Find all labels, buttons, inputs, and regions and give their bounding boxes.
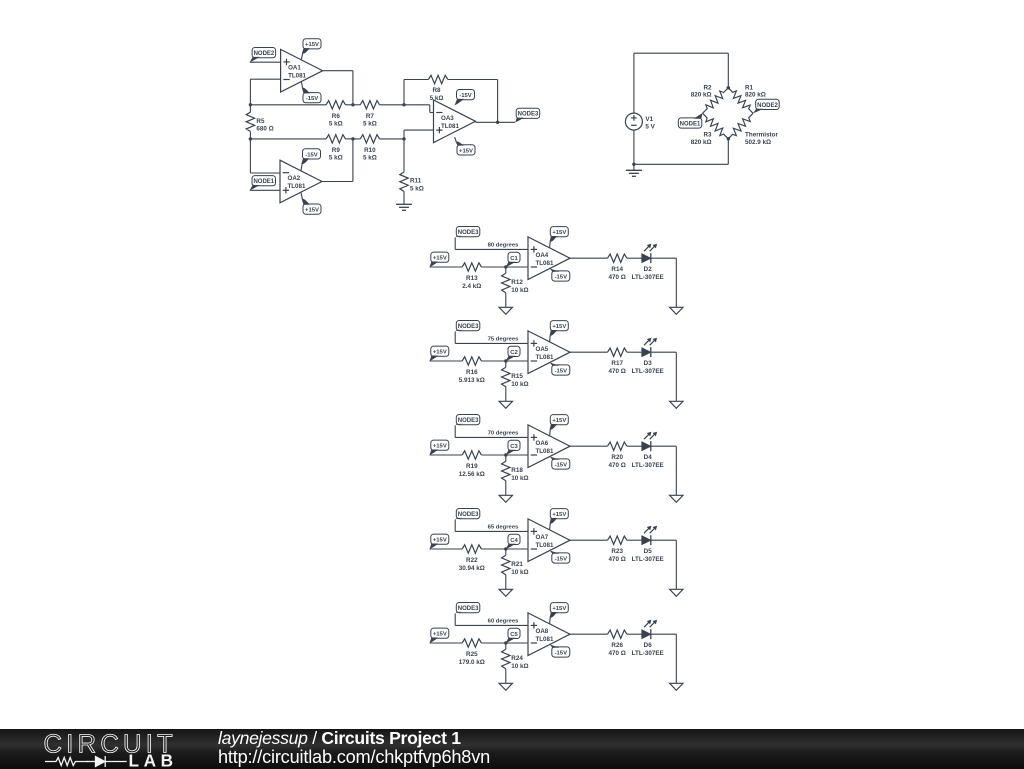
node flag NODE3 input of OA5 — [455, 321, 480, 332]
footer bar — [0, 729, 1024, 769]
wire OA3 output — [476, 121, 516, 123]
node flag NODE1 on bridge — [678, 113, 702, 128]
svg-text:R17: R17 — [611, 360, 623, 367]
wire R14 to LED D2 — [627, 257, 642, 259]
resistor R24 — [502, 649, 529, 670]
svg-text:TL081: TL081 — [536, 448, 554, 455]
svg-text:LTL-307EE: LTL-307EE — [632, 650, 664, 657]
resistor R6 — [326, 101, 345, 128]
wire into OA8 + input — [455, 624, 528, 626]
svg-text:12.56 kΩ: 12.56 kΩ — [459, 471, 485, 478]
ground right of D6 — [670, 683, 683, 690]
svg-text:D4: D4 — [644, 454, 653, 461]
svg-text:TL081: TL081 — [288, 72, 306, 79]
svg-text:-15V: -15V — [555, 556, 568, 562]
power flag +15V at R19 — [430, 440, 449, 455]
wire into OA6 + input — [455, 436, 528, 438]
op-amp OA5 — [528, 331, 570, 374]
svg-text:NODE3: NODE3 — [518, 112, 539, 118]
label 60 degrees — [488, 618, 520, 624]
svg-text:-15V: -15V — [459, 93, 472, 99]
svg-text:R5: R5 — [256, 118, 265, 125]
svg-text:OA7: OA7 — [536, 534, 549, 541]
wire R19 to node C3 — [482, 454, 506, 456]
wire into OA3 + input — [404, 129, 434, 131]
svg-text:470 Ω: 470 Ω — [609, 462, 626, 469]
power flag +15V at R16 — [430, 346, 449, 361]
LED D3 — [632, 338, 664, 375]
wire R17 to LED D3 — [627, 351, 642, 353]
power flag -15V of OA1 — [301, 82, 321, 103]
wire top bus segment 3 — [380, 104, 430, 106]
footer url — [218, 748, 490, 766]
power flag -15V of OA7 — [550, 550, 570, 563]
wire +15V to R13 — [430, 266, 463, 268]
wire R15 to ground — [505, 387, 507, 402]
wire NODE3 drop for OA5 — [454, 332, 456, 344]
junction OA2 output on bottom bus — [351, 137, 354, 140]
ground under R11 — [396, 204, 412, 210]
svg-text:+15V: +15V — [433, 256, 447, 262]
svg-text:R23: R23 — [611, 548, 623, 555]
svg-text:V1: V1 — [645, 116, 653, 123]
wire LED D5 to corner — [651, 539, 676, 541]
svg-text:C2: C2 — [510, 350, 518, 356]
wire into OA5 + input — [455, 342, 528, 344]
LED D2 — [632, 244, 664, 281]
svg-text:5 V: 5 V — [645, 124, 655, 131]
wire OA1 - input — [250, 78, 280, 80]
label R3 — [691, 132, 712, 146]
svg-text:R18: R18 — [511, 467, 523, 474]
wire R18 to ground — [505, 481, 507, 496]
wire into OA4 + input — [455, 248, 528, 250]
wire +15V to R22 — [430, 548, 463, 550]
wire top bus segment 1 — [250, 104, 326, 106]
wire OA1 output down to top bus — [352, 71, 354, 105]
svg-text:OA8: OA8 — [536, 628, 549, 635]
wire node C4 to OA7 - input — [506, 548, 528, 550]
wire R25 to node C5 — [482, 642, 506, 644]
svg-text:R8: R8 — [432, 87, 441, 94]
wire R24 to ground — [505, 669, 507, 684]
wire node C4 down to R21 — [505, 549, 507, 555]
junction at R5 top — [249, 103, 252, 106]
svg-text:NODE3: NODE3 — [458, 606, 479, 612]
op-amp OA6 — [528, 425, 570, 468]
wire R26 to LED D6 — [627, 633, 642, 635]
svg-text:C5: C5 — [510, 632, 518, 638]
wire OA1 output — [323, 70, 353, 72]
svg-text:820 kΩ: 820 kΩ — [691, 92, 712, 99]
node flag C3 — [506, 440, 520, 455]
svg-text:OA6: OA6 — [536, 440, 549, 447]
wire down to ground right of D5 — [675, 540, 677, 589]
node flag NODE3 input of OA6 — [455, 415, 480, 426]
node flag NODE1 at OA2 input — [250, 176, 276, 191]
resistor R8 — [428, 75, 447, 102]
svg-text:NODE3: NODE3 — [458, 418, 479, 424]
op-amp OA7 — [528, 519, 570, 562]
wire LED D2 to corner — [651, 257, 676, 259]
wire +15V to R16 — [430, 360, 463, 362]
svg-text:5 kΩ: 5 kΩ — [430, 95, 444, 102]
svg-text:+15V: +15V — [305, 208, 319, 214]
wire bottom bus segment 1 — [250, 138, 326, 140]
wire top bus to R5 — [249, 105, 251, 112]
LED D4 — [632, 432, 664, 469]
wire +15V to R25 — [430, 642, 463, 644]
svg-text:TL081: TL081 — [536, 354, 554, 361]
ground under R18 — [499, 495, 512, 502]
label 70 degrees — [488, 430, 520, 436]
node flag NODE3 input of OA7 — [455, 509, 480, 520]
ground right of D2 — [670, 307, 683, 314]
svg-text:TL081: TL081 — [536, 542, 554, 549]
wire node C5 to OA8 - input — [506, 642, 528, 644]
label Thermistor — [745, 132, 778, 146]
svg-text:-15V: -15V — [555, 368, 568, 374]
voltage source V1 — [625, 113, 655, 131]
wire OA5 output to R17 — [570, 351, 608, 353]
wire NODE3 drop for OA8 — [454, 614, 456, 626]
resistor R18 — [502, 461, 529, 482]
resistor R10 — [360, 135, 379, 162]
resistor R1 (bridge top-right arm) — [728, 88, 753, 114]
svg-text:470 Ω: 470 Ω — [609, 650, 626, 657]
resistor R15 — [502, 367, 529, 388]
wire OA8 output to R26 — [570, 633, 608, 635]
label 65 degrees — [488, 524, 520, 530]
svg-text:+15V: +15V — [305, 42, 319, 48]
svg-text:65 degrees: 65 degrees — [488, 524, 520, 530]
svg-text:10 kΩ: 10 kΩ — [511, 475, 528, 482]
LED D5 — [632, 526, 664, 563]
label 80 degrees — [488, 242, 520, 248]
svg-text:R10: R10 — [364, 147, 376, 154]
resistor R2 (bridge top-left arm) — [703, 88, 729, 114]
power flag +15V of OA2 — [301, 192, 321, 214]
wire OA6 output to R20 — [570, 445, 608, 447]
svg-text:-15V: -15V — [555, 462, 568, 468]
resistor R16 — [459, 357, 485, 384]
svg-text:5 kΩ: 5 kΩ — [329, 155, 343, 162]
svg-text:+15V: +15V — [552, 418, 566, 424]
svg-text:+15V: +15V — [552, 230, 566, 236]
svg-text:NODE3: NODE3 — [458, 230, 479, 236]
wire R23 to LED D5 — [627, 539, 642, 541]
svg-text:R3: R3 — [703, 132, 712, 139]
svg-text:OA5: OA5 — [536, 346, 549, 353]
svg-text:R21: R21 — [511, 561, 523, 568]
svg-text:5 kΩ: 5 kΩ — [410, 186, 424, 193]
wire +15V to R19 — [430, 454, 463, 456]
wire R11 to ground — [403, 191, 405, 204]
op-amp OA4 — [528, 237, 570, 280]
ground under R12 — [499, 307, 512, 314]
svg-text:R6: R6 — [332, 113, 341, 120]
wire bottom bus segment 3 — [380, 138, 404, 140]
junction feedback on OA3 output — [496, 121, 499, 124]
power flag -15V of OA6 — [550, 456, 570, 469]
svg-text:5 kΩ: 5 kΩ — [329, 121, 343, 128]
svg-text:+15V: +15V — [459, 148, 473, 154]
power flag -15V of OA8 — [550, 644, 570, 657]
power flag +15V of OA4 — [550, 227, 569, 248]
junction node C1 — [504, 265, 507, 268]
power flag -15V of OA4 — [550, 268, 570, 281]
resistor R20 — [608, 442, 627, 469]
svg-text:10 kΩ: 10 kΩ — [511, 287, 528, 294]
resistor R3 (bridge bottom-left arm) — [703, 113, 729, 139]
wire right riser top — [727, 53, 729, 88]
wire V1 to bottom — [633, 130, 635, 164]
node flag C4 — [506, 534, 520, 549]
ground under R15 — [499, 401, 512, 408]
wire R13 to node C1 — [482, 266, 506, 268]
svg-text:470 Ω: 470 Ω — [609, 368, 626, 375]
svg-text:5 kΩ: 5 kΩ — [363, 155, 377, 162]
wire into OA7 + input — [455, 530, 528, 532]
power flag +15V of OA7 — [550, 509, 569, 530]
svg-text:-15V: -15V — [306, 96, 319, 102]
resistor R19 — [459, 451, 485, 478]
svg-text:OA1: OA1 — [288, 64, 301, 71]
resistor R25 — [459, 639, 485, 666]
resistor R7 — [360, 101, 379, 128]
node flag NODE2 at OA1 input — [250, 48, 276, 63]
wire R8 to feedback right — [448, 79, 498, 81]
wire top bus segment 2 — [345, 104, 360, 106]
svg-text:R13: R13 — [466, 275, 478, 282]
label 75 degrees — [488, 336, 520, 342]
svg-text:+15V: +15V — [433, 444, 447, 450]
power flag -15V of OA3 — [455, 90, 475, 106]
svg-text:NODE3: NODE3 — [458, 512, 479, 518]
svg-text:NODE2: NODE2 — [254, 51, 275, 57]
svg-text:+15V: +15V — [433, 632, 447, 638]
CircuitLab logo — [44, 730, 178, 769]
svg-text:R11: R11 — [410, 178, 422, 185]
svg-text:R2: R2 — [703, 85, 712, 92]
ground under V1 — [626, 170, 642, 176]
svg-text:OA4: OA4 — [536, 252, 549, 259]
resistor R26 — [608, 630, 627, 657]
svg-text:+15V: +15V — [552, 512, 566, 518]
svg-text:LTL-307EE: LTL-307EE — [632, 368, 664, 375]
wire up to OA3 + input — [403, 130, 405, 139]
resistor R5 — [246, 112, 274, 133]
resistor R17 — [608, 348, 627, 375]
wire V1 to top — [633, 53, 635, 113]
svg-text:R16: R16 — [466, 369, 478, 376]
svg-text:R22: R22 — [466, 557, 478, 564]
wire node C2 down to R15 — [505, 361, 507, 367]
wire LED D3 to corner — [651, 351, 676, 353]
thermistor (bridge bottom-right arm) — [728, 113, 753, 139]
svg-text:R19: R19 — [466, 463, 478, 470]
svg-text:C3: C3 — [510, 444, 518, 450]
svg-text:820 kΩ: 820 kΩ — [745, 92, 766, 99]
wire LED D6 to corner — [651, 633, 676, 635]
wire bridge top — [634, 52, 728, 54]
svg-text:C4: C4 — [510, 538, 518, 544]
power flag +15V of OA6 — [550, 415, 569, 436]
node flag NODE3 input of OA8 — [455, 603, 480, 614]
wire ground stub — [633, 164, 635, 170]
svg-text:+15V: +15V — [433, 538, 447, 544]
wire NODE2 to OA1 + input — [250, 61, 281, 63]
svg-text:LTL-307EE: LTL-307EE — [632, 556, 664, 563]
svg-text:R25: R25 — [466, 651, 478, 658]
svg-text:R1: R1 — [745, 85, 754, 92]
power flag +15V of OA5 — [550, 321, 569, 342]
svg-text:R9: R9 — [332, 147, 341, 154]
wire NODE1 to OA2 + input — [250, 189, 280, 191]
power flag +15V of OA3 — [455, 137, 475, 155]
footer project title — [218, 730, 461, 748]
svg-text:R15: R15 — [511, 373, 523, 380]
svg-text:680 Ω: 680 Ω — [256, 126, 273, 133]
svg-text:30.94 kΩ: 30.94 kΩ — [459, 565, 485, 572]
svg-text:TL081: TL081 — [288, 183, 306, 190]
svg-text:OA2: OA2 — [288, 175, 301, 182]
wire node C1 to OA4 - input — [506, 266, 528, 268]
wire R12 to ground — [505, 293, 507, 308]
wire OA1 - input to top bus — [249, 79, 251, 105]
power flag +15V of OA8 — [550, 603, 569, 624]
svg-text:5.913 kΩ: 5.913 kΩ — [459, 377, 485, 384]
svg-text:+15V: +15V — [552, 324, 566, 330]
svg-text:-15V: -15V — [555, 650, 568, 656]
wire OA4 output to R14 — [570, 257, 608, 259]
ground right of D3 — [670, 401, 683, 408]
svg-text:470 Ω: 470 Ω — [609, 556, 626, 563]
power flag +15V of OA1 — [301, 39, 321, 60]
svg-text:NODE3: NODE3 — [458, 324, 479, 330]
svg-text:Thermistor: Thermistor — [745, 132, 778, 139]
svg-text:470 Ω: 470 Ω — [609, 274, 626, 281]
svg-text:10 kΩ: 10 kΩ — [511, 663, 528, 670]
junction node C4 — [504, 547, 507, 550]
LED D6 — [632, 620, 664, 657]
svg-text:820 kΩ: 820 kΩ — [691, 139, 712, 146]
resistor R14 — [608, 254, 627, 281]
svg-text:+15V: +15V — [552, 606, 566, 612]
svg-text:-15V: -15V — [305, 152, 318, 158]
wire OA2 - input — [250, 172, 280, 174]
wire OA7 output to R23 — [570, 539, 608, 541]
svg-text:75 degrees: 75 degrees — [488, 336, 520, 342]
svg-text:80 degrees: 80 degrees — [488, 242, 520, 248]
op-amp OA2 — [280, 160, 322, 203]
wire LED D4 to corner — [651, 445, 676, 447]
resistor R22 — [459, 545, 485, 572]
svg-text:-15V: -15V — [555, 274, 568, 280]
junction R8 tap on top bus — [402, 103, 405, 106]
label R2 — [691, 85, 712, 99]
wire R16 to node C2 — [482, 360, 506, 362]
junction node C5 — [504, 641, 507, 644]
svg-text:+15V: +15V — [433, 350, 447, 356]
svg-text:NODE1: NODE1 — [253, 179, 274, 185]
wire OA2 output up to bottom bus — [352, 139, 354, 182]
svg-text:R24: R24 — [511, 655, 523, 662]
wire node C2 to OA5 - input — [506, 360, 528, 362]
wire OA2 output — [322, 181, 353, 183]
node flag NODE3 input of OA4 — [455, 227, 480, 238]
svg-text:OA3: OA3 — [441, 115, 454, 122]
svg-text:NODE1: NODE1 — [680, 121, 701, 127]
junction at V1 ground — [632, 163, 635, 166]
node flag NODE2 on bridge — [753, 99, 779, 113]
svg-text:LTL-307EE: LTL-307EE — [632, 274, 664, 281]
svg-text:2.4 kΩ: 2.4 kΩ — [462, 283, 481, 290]
junction bridge bottom node — [727, 137, 730, 140]
svg-text:5 kΩ: 5 kΩ — [363, 121, 377, 128]
wire bridge bottom — [634, 163, 728, 165]
junction OA1 output on top bus — [351, 103, 354, 106]
wire step down to OA3 - input — [429, 105, 431, 113]
label R1 — [745, 85, 766, 99]
svg-text:D6: D6 — [644, 642, 653, 649]
wire bottom bus segment 2 — [345, 138, 360, 140]
junction node C3 — [504, 453, 507, 456]
ground right of D5 — [670, 589, 683, 596]
junction node C2 — [504, 359, 507, 362]
svg-text:R26: R26 — [611, 642, 623, 649]
svg-text:70 degrees: 70 degrees — [488, 430, 520, 436]
wire R22 to node C4 — [482, 548, 506, 550]
svg-text:LAB: LAB — [129, 750, 178, 769]
op-amp OA3 — [434, 100, 476, 143]
svg-text:TL081: TL081 — [536, 260, 554, 267]
power flag -15V of OA2 — [301, 149, 321, 171]
wire down to ground right of D6 — [675, 634, 677, 683]
svg-text:LTL-307EE: LTL-307EE — [632, 462, 664, 469]
resistor R11 — [400, 172, 424, 193]
svg-text:10 kΩ: 10 kΩ — [511, 569, 528, 576]
wire node C1 down to R12 — [505, 267, 507, 273]
junction bridge top node — [727, 86, 730, 89]
wire node C3 to OA6 - input — [506, 454, 528, 456]
svg-text:C1: C1 — [510, 256, 518, 262]
power flag +15V at R22 — [430, 534, 449, 549]
resistor R21 — [502, 555, 529, 576]
wire down to ground right of D2 — [675, 258, 677, 307]
wire into OA3 - input — [430, 112, 434, 114]
wire bottom bus down to R11 — [403, 139, 405, 172]
ground right of D4 — [670, 495, 683, 502]
node flag C2 — [506, 346, 520, 361]
wire node C3 down to R18 — [505, 455, 507, 461]
ground under R21 — [499, 589, 512, 596]
junction at R5 bottom — [249, 137, 252, 140]
svg-text:R7: R7 — [366, 113, 375, 120]
resistor R13 — [462, 263, 481, 290]
wire down to ground right of D3 — [675, 352, 677, 401]
wire feedback left riser — [403, 80, 405, 105]
svg-text:TL081: TL081 — [536, 636, 554, 643]
wire OA2 - input to bottom bus — [249, 139, 251, 173]
svg-text:179.0 kΩ: 179.0 kΩ — [459, 659, 485, 666]
svg-text:NODE2: NODE2 — [757, 103, 778, 109]
svg-text:10 kΩ: 10 kΩ — [511, 381, 528, 388]
svg-text:D3: D3 — [644, 360, 653, 367]
svg-text:60 degrees: 60 degrees — [488, 618, 520, 624]
wire R20 to LED D4 — [627, 445, 642, 447]
wire NODE3 drop for OA6 — [454, 426, 456, 438]
